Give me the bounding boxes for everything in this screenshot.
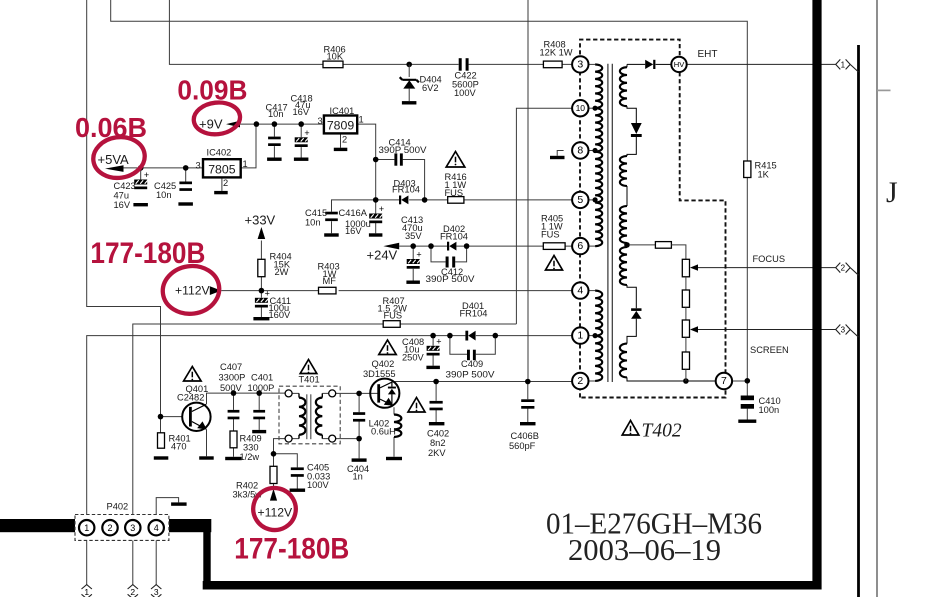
node D403 wire [373,197,379,203]
svg-text:P402: P402 [107,501,129,511]
node R402/C405 [271,451,277,457]
focus divider resistor 1 [682,259,689,277]
node C402 [433,379,439,385]
svg-text:470: 470 [171,442,187,452]
wire T401 secondary to Q402 base [336,392,378,394]
wire +24V rail to pin 6 [399,245,572,247]
T402 pin 2 [572,373,588,389]
svg-text:2: 2 [342,135,347,145]
svg-text:2: 2 [107,523,112,533]
svg-text:6V2: 6V2 [422,83,439,93]
T402 primary winding lower [589,290,596,292]
T402 pin 6 [572,238,588,254]
svg-text:+: + [416,250,421,260]
node C404 bottom [356,436,362,442]
warning triangle T402 [622,421,639,436]
wire +112V rail to pin 4 [221,290,572,292]
node C401 [256,390,262,396]
wire C413 stem [412,246,414,280]
capacitor C414 [394,153,397,165]
wire EHT line to connector 1 [687,63,836,65]
wire IC402 output to +9V rail [241,124,256,168]
wire IC402 pin2 ground stem [221,177,223,191]
resistor R401 [158,433,165,448]
wire T401 bottom return [274,439,360,454]
node C417 [272,121,278,127]
capacitor C416A [369,204,384,223]
T402 pin 5 [572,192,588,208]
wire left vertical bus to Q401 base node [87,0,161,433]
net label +112V bottom [270,489,277,501]
svg-text:8: 8 [577,145,583,157]
wire C414 bypass loop [376,160,425,200]
capacitor C412 [446,257,449,268]
capacitor C423 [134,170,149,189]
node D401 right [493,333,499,339]
svg-text:1: 1 [577,330,583,342]
wire Q401 emitter to ground [206,430,208,457]
wire C410 ground stem [746,409,748,420]
panel line thin right [876,0,878,597]
capacitor C415 [325,212,338,221]
svg-text:C423: C423 [114,181,136,191]
svg-text:1K: 1K [758,170,770,180]
svg-text:C406B: C406B [511,431,539,441]
svg-text:7809: 7809 [327,118,355,132]
svg-text:FUS: FUS [541,230,560,240]
svg-text:3: 3 [130,523,135,533]
capacitor C402 [430,401,443,410]
wire T401 terminal stubs [292,393,329,438]
svg-text:10K: 10K [327,52,344,62]
focus divider resistor 2 [685,277,687,290]
transformer T401 [279,386,340,444]
wire C425 stem [185,168,187,182]
svg-text:C402: C402 [427,428,449,438]
svg-text:C2482: C2482 [177,392,204,402]
svg-text:100V: 100V [307,480,330,490]
red circle +5VA [91,134,148,181]
svg-text:+112V: +112V [175,284,211,298]
svg-text:12K 1W: 12K 1W [540,48,573,58]
node C407 [231,390,237,396]
wire C417 stem [273,124,275,157]
op-amp regulator IC401 7809 [324,116,357,134]
capacitor C407 [228,410,240,419]
T402 pin 1 [572,327,588,343]
focus divider resistor 4 [685,337,687,352]
transformer T402 core [607,64,609,382]
transistor Q402 3D1555 [370,379,399,408]
svg-text:2: 2 [577,375,583,387]
svg-text:10n: 10n [268,109,284,119]
inductor L402 [394,415,401,438]
SCREEN wiper arrow [690,326,698,332]
svg-text:+: + [379,204,384,214]
T402 pin 4 [572,282,588,298]
svg-text:100n: 100n [759,405,780,415]
diode D401 [465,331,475,341]
svg-text:FUS: FUS [445,188,464,198]
red circle +112V bottom [249,483,300,534]
node divider bottom [683,378,689,384]
svg-text:2: 2 [223,178,228,188]
wire +33V top feed to R415 [111,0,748,161]
svg-text:+112V: +112V [258,505,294,519]
node C412 right [464,243,470,249]
wire pin10 branch [516,108,571,324]
svg-text:3: 3 [318,116,323,126]
resistor R415 [744,161,751,178]
node C414/D403 right [422,197,428,203]
svg-text:T401: T401 [299,374,320,384]
connector arrow 2 FOCUS [836,263,859,276]
wire C423 stem [140,168,142,180]
FOCUS wiper arrow [690,264,698,270]
wire C404 branch [358,393,360,458]
wire SCREEN line to connector 3 [698,329,836,331]
resistor R409 [230,431,237,448]
svg-text:8n2: 8n2 [430,438,446,448]
rectifier diode secondary 1 [631,123,642,137]
svg-text:C409: C409 [461,359,483,369]
focus divider feed resistor [630,244,656,246]
svg-text:3: 3 [196,161,201,171]
wire pin8 ground [557,151,563,156]
svg-text:J: J [886,176,898,209]
wire C416A bottom stem [375,222,377,233]
wire C406B stem [527,382,529,423]
diode D403 [399,196,408,205]
wire R402/C405 node [274,454,298,489]
capacitor C401 [253,410,265,419]
T402 pin 3 [572,56,588,72]
capacitor C425 [179,182,192,191]
svg-text:EHT: EHT [698,49,718,60]
wire +5VA rail [124,167,204,169]
wire C409 loop [450,336,495,355]
ground Q401 emitter [199,456,214,459]
svg-text:5: 5 [577,194,583,206]
connector arrow down 2 [128,585,138,597]
capacitor C404 [353,412,365,421]
svg-text:IC402: IC402 [207,147,232,157]
zener D404 [408,64,410,77]
resistor R408 [543,61,562,68]
svg-text:2KV: 2KV [428,448,446,458]
node D403 left [373,157,379,163]
svg-text:390P 500V: 390P 500V [379,145,428,155]
board edge thick bar right of P402 [169,519,211,532]
node pin7/R415/C410 [745,378,751,384]
svg-text:T402: T402 [642,421,682,442]
svg-text:16V: 16V [114,200,131,210]
warning triangle Q401 [184,367,202,382]
wire Q402 collector rail to pin 2 [394,381,572,383]
wire R406 rail from top [169,0,571,64]
node C418 [298,121,304,127]
svg-text:1000P: 1000P [248,383,275,393]
wire C407 branch with R409 [233,393,235,457]
regulator IC402 7805 [203,159,241,177]
svg-text:6: 6 [577,240,583,252]
connector arrow 1 EHT [836,59,859,72]
resistor R403 [319,287,337,294]
fusible resistor R405 [543,243,565,250]
warning triangle T401 [300,360,317,374]
wire FOCUS line to connector 2 [698,267,836,269]
svg-text:7: 7 [721,375,727,387]
fusible resistor R407 [383,321,400,328]
svg-text:3D1555: 3D1555 [363,369,396,379]
capacitor C408 [427,336,442,355]
connector arrow 3 SCREEN [836,325,859,338]
svg-text:FR104: FR104 [440,232,468,242]
T402 primary tap lower [593,333,598,338]
svg-text:3: 3 [154,587,159,597]
wire P402 pin1 to D401 rail to pin 1 [87,336,572,520]
gray tick mark [877,89,891,91]
svg-text:3: 3 [841,326,846,335]
svg-text:1/2w: 1/2w [240,452,260,462]
svg-text:2003–06–19: 2003–06–19 [568,532,721,567]
capacitor C418 [295,128,310,147]
svg-text:10: 10 [576,103,586,113]
red circle +112V left [160,262,223,317]
wire C415 branch [332,200,376,233]
svg-text:1: 1 [359,115,364,125]
wire +9V rail [239,123,324,125]
wire C411 stem [260,291,262,317]
node C425 [183,165,189,171]
svg-text:FR104: FR104 [392,185,420,195]
capacitor C417 [268,137,281,146]
connector arrow down 3 [151,585,161,597]
capacitor C410 [741,396,754,401]
svg-text:2: 2 [841,264,846,273]
svg-text:+: + [436,336,441,346]
svg-text:MF: MF [323,276,337,286]
P402 pin 1 [79,520,94,535]
board edge thick bar left of P402 [0,519,75,532]
EHT rectifier diode [627,63,645,65]
node C423 [138,165,144,171]
svg-text:1: 1 [84,523,89,533]
P402 pin 3 [125,520,140,535]
connector arrow down 1 [82,585,92,597]
wire C412 parallel loop [431,246,467,262]
capacitor C411 [255,288,270,307]
node C408 [430,333,436,339]
svg-text:+: + [144,170,149,180]
svg-text:100V: 100V [454,88,477,98]
T402 pin 10 [572,100,588,116]
svg-text:1: 1 [243,159,248,169]
board edge thick bar bottom-left corner [203,532,210,583]
svg-text:+5VA: +5VA [98,152,130,167]
wire D403 rail to pin 5 [376,199,572,201]
node C412 left [428,243,434,249]
svg-text:SCREEN: SCREEN [750,345,789,355]
wire Q402 emitter to L402 to ground [393,407,395,457]
svg-text:560pF: 560pF [509,441,536,451]
capacitor C405 [291,467,304,476]
board edge thick bottom bar [203,581,822,590]
svg-text:16V: 16V [345,226,362,236]
svg-text:0.6uH: 0.6uH [371,427,396,437]
svg-text:47u: 47u [114,191,130,201]
T402 primary winding upper [589,63,596,65]
warning triangle C402 [408,398,425,413]
rectifier diode secondary 2 [631,308,641,318]
P402 pin 2 [102,520,117,535]
resistor R406 [323,61,343,68]
svg-text:3: 3 [577,58,583,70]
svg-text:390P 500V: 390P 500V [446,370,496,380]
wire pin7 to C410 node [732,380,747,382]
svg-text:Q402: Q402 [372,359,395,369]
svg-text:16V: 16V [293,107,310,117]
ground pin 8 [550,156,565,159]
wire C402 stem [435,382,437,423]
svg-text:177-180B: 177-180B [234,533,349,566]
wire +33V arrow stem [260,241,262,260]
svg-text:500V: 500V [220,383,243,393]
ground P402 pin4 [171,502,187,505]
capacitor C413 [407,250,422,269]
svg-text:7805: 7805 [208,162,236,176]
board edge thick vertical bar right [812,0,821,590]
T402 pin 7 [716,373,732,389]
capacitor C422 [459,58,462,70]
wire C408 stem [432,336,434,366]
node Q402 base [356,391,362,397]
warning triangle R416 [446,152,465,168]
P402 pin 4 [149,520,164,535]
svg-text:160V: 160V [269,310,292,320]
svg-text:390P 500V: 390P 500V [426,274,476,284]
node R404/C411 [259,288,265,294]
wire P402 pin outputs to board edge [87,536,157,585]
svg-text:2: 2 [130,587,135,597]
wire C418 stem [300,124,302,157]
svg-text:3300P: 3300P [219,373,246,383]
T402 primary taps upper [593,106,598,111]
svg-text:1: 1 [84,587,89,597]
transformer T402 dashed outline [580,40,726,398]
focus divider resistor 3 [685,307,687,320]
diode D402 [447,242,456,251]
wire P402 pin4 ground [156,498,178,520]
capacitor C409 [467,350,470,361]
fusible resistor R416 [448,197,464,204]
svg-text:C407: C407 [220,362,242,372]
svg-text:C416A: C416A [339,208,368,218]
T402 secondary winding chain [626,64,628,67]
svg-text:+24V: +24V [367,248,398,263]
wire R404 to +112V rail [260,277,262,291]
ground C404 [352,458,367,461]
svg-text:10n: 10n [305,218,321,228]
node C409 left [447,333,453,339]
node C406B [525,379,531,385]
svg-text:250V: 250V [402,353,425,363]
svg-text:C401: C401 [251,373,273,383]
svg-text:1n: 1n [353,472,363,482]
svg-text:35V: 35V [405,231,422,241]
wire IC401 output down to C416A [357,124,376,213]
node +9V/IC402 [254,121,260,127]
svg-text:+33V: +33V [245,212,276,227]
svg-text:FR104: FR104 [460,309,488,319]
resistor R402 [270,466,277,483]
node R406/D404 [406,62,412,68]
svg-text:4: 4 [154,523,159,533]
svg-text:10n: 10n [156,190,172,200]
resistor R404 [258,259,265,276]
svg-text:+: + [304,128,309,138]
svg-text:FUS: FUS [384,311,403,321]
node focus tap [624,242,630,248]
svg-text:1: 1 [841,60,846,69]
wire Q401 collector to T401 node [207,393,286,404]
svg-text:2W: 2W [275,267,289,277]
svg-text:4: 4 [577,285,583,297]
wire C401 branch [258,393,260,430]
panel line medium right [857,45,860,597]
red circle +9V [192,100,241,136]
warning triangle Q402 [379,340,396,355]
svg-text:HV: HV [674,60,685,69]
wire R415 to pin7/C410 node [746,178,748,398]
connector P402 [75,515,169,541]
T402 pin 8 [572,142,588,158]
wire Q401 base [161,416,183,418]
wire IC401 pin2 ground stem [340,133,342,147]
wire P402 pin3 to R407 to pin10 drop [133,324,517,520]
transistor Q401 C2482 [182,403,210,431]
warning triangle R405 [546,256,563,271]
node C413 [410,243,416,249]
svg-text:0.09B: 0.09B [177,75,247,106]
svg-text:FOCUS: FOCUS [753,254,786,264]
capacitor C406B [521,399,534,408]
svg-text:IC401: IC401 [330,106,355,116]
wire long vertical to C406B [527,0,529,382]
node Q401 base [158,414,164,420]
terminal HV [671,57,686,72]
